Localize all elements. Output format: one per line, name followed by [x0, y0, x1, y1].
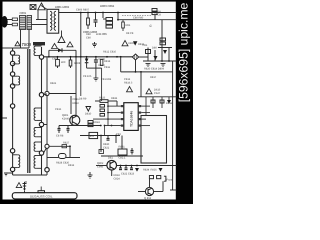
node dots primary bus	[48, 56, 122, 58]
wire primary stub	[3, 30, 30, 49]
wire top bus	[59, 12, 177, 14]
wire mains top	[3, 19, 13, 21]
svg-text:T803: T803	[22, 42, 32, 47]
resistor R808	[69, 57, 72, 68]
svg-text:C822 C823: C822 C823	[121, 173, 135, 176]
diode D807	[154, 56, 158, 60]
svg-text:C82.1: C82.1	[119, 157, 126, 160]
node circle A	[45, 91, 49, 95]
svg-text:C81 R81: C81 R81	[101, 78, 112, 81]
wire y101 bus piece	[146, 97, 162, 116]
capacitor C803	[94, 13, 98, 28]
capacitor C818b	[131, 148, 134, 155]
wire vertical x47	[46, 57, 48, 92]
svg-text:TDA16846: TDA16846	[130, 111, 134, 127]
warning triangle mid	[52, 44, 58, 49]
diode D808	[163, 50, 167, 54]
svg-text:R808: R808	[74, 62, 81, 65]
svg-text:[596x695] upic.me: [596x695] upic.me	[177, 2, 191, 102]
optocoupler box	[89, 132, 98, 138]
svg-text:C801: C801	[20, 11, 27, 15]
svg-text:R821: R821	[50, 82, 57, 85]
svg-text:R820 C814 D809: R820 C814 D809	[144, 68, 165, 71]
filter capacitor block C801 (hatched)	[20, 16, 26, 30]
svg-text:400: 400	[61, 61, 66, 64]
wire x101.6 vertical	[101, 68, 103, 101]
svg-text:C806 R807: C806 R807	[76, 9, 90, 12]
svg-text:D812: D812	[68, 164, 75, 167]
small rect R819	[146, 50, 151, 54]
ground mid bottom	[88, 172, 93, 178]
transistor Q801	[70, 115, 80, 125]
svg-text:R803 C804: R803 C804	[100, 4, 115, 8]
wire feedback drop	[104, 126, 106, 136]
resistor R807 stack	[152, 9, 157, 20]
connector bracket P801	[164, 176, 166, 181]
svg-text:C627: C627	[154, 92, 161, 95]
diode near IC left	[86, 107, 91, 112]
node circle C	[45, 168, 49, 172]
cap C817	[151, 100, 164, 103]
svg-text:R812 C810: R812 C810	[103, 51, 117, 54]
small caps under y165.5	[119, 166, 133, 170]
wire y157.5 row	[47, 157, 80, 159]
Q802 emitter down	[111, 169, 113, 176]
warning triangle small	[67, 42, 73, 47]
warning triangle w stem	[58, 31, 65, 43]
transistor Q803	[145, 187, 153, 195]
wire second bus	[118, 19, 177, 21]
svg-text:R817: R817	[150, 76, 157, 79]
svg-text:LNK 805: LNK 805	[96, 32, 107, 36]
resistor R801	[12, 23, 17, 26]
bridge rectifier D802 block	[103, 13, 113, 29]
filter capacitor block C802 (hatched)	[27, 16, 32, 30]
resistor R818 stack	[160, 38, 166, 45]
degauss coil connector	[12, 193, 77, 199]
warning triangle bottom	[16, 183, 22, 188]
wire horizontal from node A	[49, 93, 76, 95]
svg-text:C80: C80	[86, 37, 91, 40]
svg-text:D80: D80	[152, 47, 157, 50]
capacitor C808	[94, 57, 98, 68]
wire y135.5	[80, 135, 120, 137]
caps above Q803	[149, 176, 160, 179]
resistor R823 column	[70, 96, 72, 114]
svg-text:D801 R802: D801 R802	[55, 5, 70, 9]
warning triangle near IC	[127, 87, 133, 92]
warning triangle at T803	[15, 42, 20, 46]
svg-text:D81: D81	[108, 157, 113, 160]
svg-text:D811: D811	[166, 102, 173, 105]
wire degauss link	[24, 191, 26, 193]
svg-text:R825: R825	[99, 97, 106, 100]
svg-text:R824: R824	[94, 121, 101, 124]
connector tab	[38, 191, 45, 193]
zener D805	[133, 41, 137, 45]
warning triangle right	[122, 41, 128, 46]
winding secondary	[34, 46, 42, 168]
sidebar black band	[176, 0, 193, 204]
capacitor C817a	[58, 126, 70, 134]
fuse F801	[12, 18, 17, 21]
capacitor C819	[107, 136, 110, 141]
thermistor symbol	[23, 182, 27, 189]
wire lower link	[87, 67, 102, 69]
wire to IC via resistor	[95, 100, 117, 106]
ground symbol mid top	[92, 42, 97, 47]
svg-text:C811: C811	[104, 66, 111, 69]
svg-text:C815: C815	[55, 108, 62, 111]
IC IC801	[124, 103, 138, 131]
wire border tick	[3, 117, 8, 119]
IC pins left	[121, 105, 141, 127]
svg-text:Pxxx: Pxxx	[167, 179, 173, 182]
node dots on top bus	[80, 12, 156, 14]
node circle B	[45, 144, 49, 148]
wire y156	[101, 155, 143, 157]
border frame bottom	[0, 200, 193, 205]
wire x118 drop	[117, 13, 119, 20]
svg-text:R835: R835	[151, 169, 158, 172]
resistor R809	[122, 20, 125, 31]
svg-text:R836: R836	[111, 97, 118, 100]
svg-text:R8 C8: R8 C8	[126, 32, 134, 35]
wire dashed aux	[122, 15, 152, 17]
mains plug blob	[1, 16, 7, 28]
svg-text:C821: C821	[103, 147, 110, 150]
svg-text:R822: R822	[73, 102, 80, 105]
transformer left wire	[12, 48, 14, 175]
ground under C808	[93, 68, 98, 81]
winding primary upper	[13, 55, 20, 167]
warning triangle right mid	[146, 89, 152, 94]
transformer terminals left	[10, 51, 14, 172]
transformer bottom wire	[13, 174, 47, 176]
Q803 wires	[138, 166, 177, 192]
resistor R804	[87, 13, 90, 30]
svg-text:R813: R813	[104, 60, 111, 63]
wire mains bottom	[3, 24, 13, 26]
svg-text:D810: D810	[85, 113, 92, 116]
wire primary bus	[44, 56, 133, 58]
svg-text:R816.5: R816.5	[124, 82, 133, 85]
svg-text:R827: R827	[63, 142, 70, 145]
cluster wires	[143, 20, 177, 166]
resistor stack left of IC	[100, 105, 105, 117]
svg-text:D8 R9: D8 R9	[79, 98, 87, 101]
feedback resistor box	[118, 149, 127, 155]
jumper oval	[59, 154, 67, 159]
border frame top	[0, 0, 193, 2]
wire diamond down	[121, 57, 173, 97]
wire y165.5 long	[116, 165, 176, 167]
ground cluster b	[161, 64, 166, 67]
wire long y96.8	[138, 96, 177, 98]
transformer terminals right	[39, 55, 43, 155]
transformer right wire	[41, 47, 43, 175]
wire pin header vertical	[107, 101, 109, 126]
svg-text:C8 R8: C8 R8	[56, 135, 64, 138]
gate resistor cluster	[88, 121, 93, 127]
border frame left	[0, 0, 3, 204]
wire stub transformer to node	[44, 93, 48, 96]
svg-text:DEGAUSS COIL: DEGAUSS COIL	[30, 195, 53, 199]
svg-text:C80 R80: C80 R80	[133, 17, 144, 20]
wire Q source down	[74, 124, 76, 127]
bridge diamond	[132, 54, 138, 60]
svg-text:K2645: K2645	[62, 118, 70, 121]
resistor R832	[99, 150, 104, 154]
wire x101 down	[101, 136, 122, 153]
ground cluster a	[146, 64, 151, 67]
fuse F801 symbol with X	[30, 5, 36, 10]
transformer core	[28, 49, 30, 173]
ground at transformer	[4, 173, 13, 176]
IC pin wires left	[93, 106, 150, 126]
svg-text:R81: R81	[126, 24, 131, 27]
svg-text:C824: C824	[114, 178, 121, 181]
capacitor C807	[56, 57, 60, 68]
svg-text:C81: C81	[143, 44, 148, 47]
svg-text:R831: R831	[119, 146, 126, 149]
diode D804	[85, 57, 89, 68]
wire choke feeds	[32, 10, 48, 25]
wire bus riser	[80, 13, 82, 57]
node dot R827	[69, 145, 71, 147]
heatsink outline	[141, 116, 167, 164]
svg-text:C8: C8	[158, 14, 162, 17]
transistor Q802	[107, 160, 117, 170]
svg-text:R834: R834	[143, 169, 150, 172]
svg-text:Q 804: Q 804	[144, 197, 152, 200]
warning triangle top-left	[38, 3, 45, 10]
wire down to Q	[75, 94, 77, 116]
line-filter choke L801	[41, 6, 59, 34]
wire node B branches	[47, 146, 70, 175]
svg-text:C807: C807	[52, 58, 59, 61]
diode D811a	[167, 100, 171, 104]
resistor R811	[100, 60, 103, 66]
diode D803 branch	[49, 50, 76, 93]
svg-text:C8 105: C8 105	[83, 75, 92, 78]
